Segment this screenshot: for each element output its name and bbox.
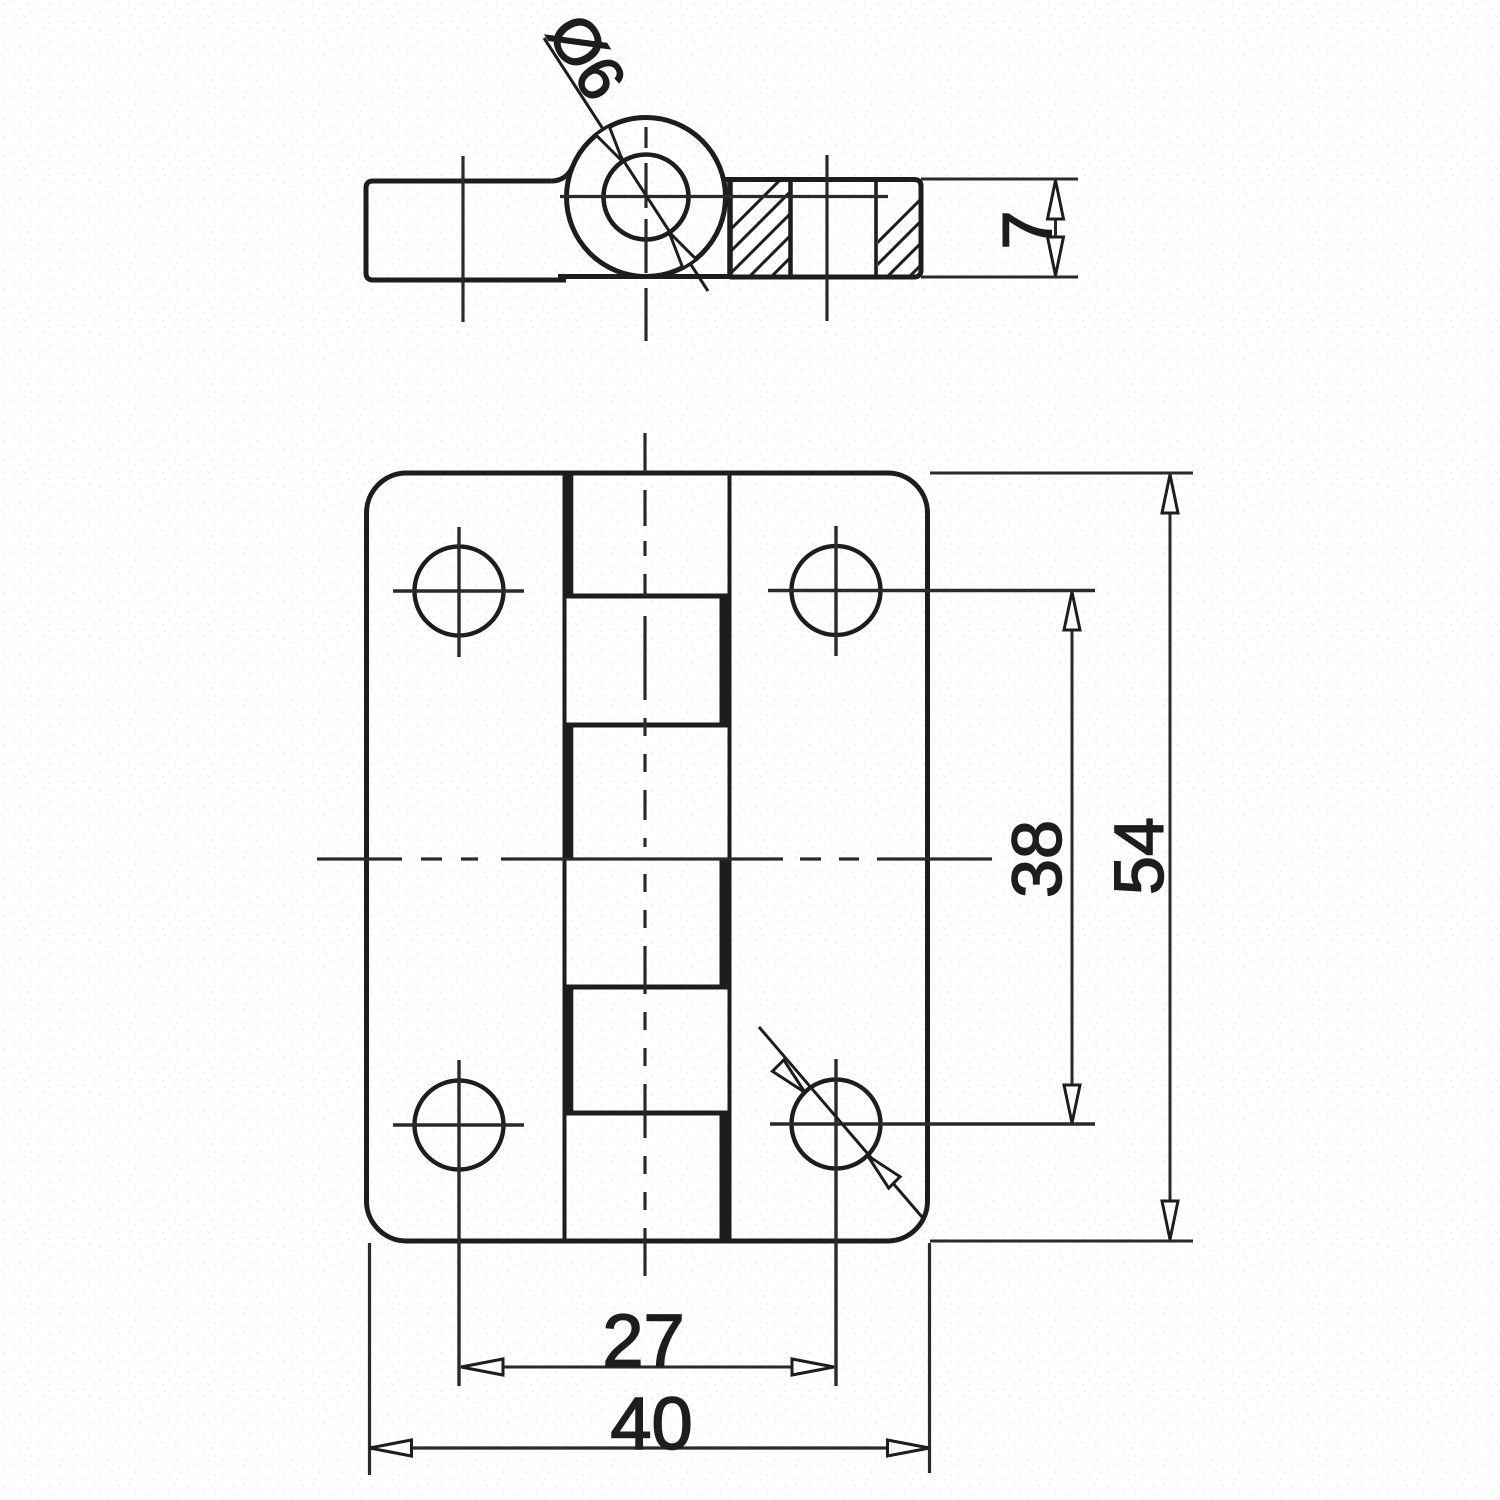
svg-text:40: 40: [610, 1382, 692, 1465]
svg-text:54: 54: [1100, 817, 1178, 895]
svg-text:27: 27: [602, 1299, 684, 1382]
svg-text:7: 7: [988, 211, 1066, 250]
svg-text:38: 38: [998, 820, 1076, 898]
